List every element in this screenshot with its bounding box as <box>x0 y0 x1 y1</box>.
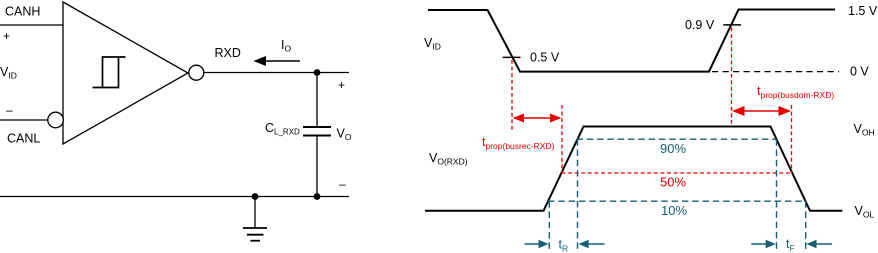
dashed teal vertical fall 10% <box>805 201 807 252</box>
wire RXD output <box>204 72 349 74</box>
arrow tF right <box>806 240 832 249</box>
svg-text:10%: 10% <box>661 203 687 218</box>
dashed teal vertical rise 90% <box>577 139 579 252</box>
dashed red vertical at 0.9V crossing <box>731 28 733 124</box>
svg-text:–: – <box>339 177 346 191</box>
svg-text:RXD: RXD <box>215 46 241 60</box>
dashed red vertical at falling 50% crossing <box>791 105 793 173</box>
arrow tF left <box>751 240 776 249</box>
tick 0.9 V threshold <box>723 24 741 26</box>
inverting input bubble <box>48 112 64 128</box>
dashed red vertical at rising 50% crossing <box>561 105 563 173</box>
svg-text:90%: 90% <box>660 141 686 156</box>
arrow tR right <box>579 240 605 249</box>
svg-text:50%: 50% <box>660 174 686 189</box>
wire capacitor to bottom rail <box>316 136 318 197</box>
capacitor CL_RXD <box>303 127 331 136</box>
arrow tprop(busdom-RXD) <box>732 106 791 116</box>
wire bottom rail <box>0 196 349 198</box>
waveform VO(RXD) <box>425 127 842 211</box>
dashed teal vertical fall 90% <box>776 139 778 252</box>
arrow tR left <box>525 240 549 249</box>
svg-text:CANH: CANH <box>5 5 40 19</box>
wire node to capacitor <box>316 73 318 128</box>
node junction ground <box>252 193 259 200</box>
svg-text:+: + <box>338 78 345 92</box>
arrow tprop(busrec-RXD) <box>513 114 562 123</box>
node junction top <box>314 69 321 76</box>
dashed teal 90% level line <box>577 138 776 140</box>
svg-text:CANL: CANL <box>7 132 40 146</box>
wire CANL input <box>0 119 48 121</box>
svg-text:+: + <box>3 29 10 43</box>
output bubble <box>189 65 204 80</box>
hysteresis symbol <box>93 57 126 88</box>
svg-text:0.5 V: 0.5 V <box>530 51 560 65</box>
wire ground stem <box>254 197 256 229</box>
current arrow IO <box>254 56 301 66</box>
svg-text:0.9 V: 0.9 V <box>685 18 715 32</box>
waveform VID <box>428 10 835 72</box>
wire CANH input <box>0 24 63 26</box>
ground symbol <box>243 228 267 241</box>
dashed teal vertical rise 10% <box>548 201 550 252</box>
dashed red vertical at 0.5V crossing <box>511 60 513 132</box>
dashed red 50% level line <box>562 172 792 174</box>
svg-text:–: – <box>6 103 13 117</box>
tick 0.5 V threshold <box>503 56 521 58</box>
dashed 0 V level line <box>712 71 839 73</box>
svg-text:1.5 V: 1.5 V <box>848 4 878 18</box>
node junction capacitor bottom <box>314 193 321 200</box>
dashed teal 10% level line <box>548 200 806 202</box>
svg-text:0 V: 0 V <box>850 65 869 79</box>
op-amp comparator triangle <box>63 2 188 144</box>
